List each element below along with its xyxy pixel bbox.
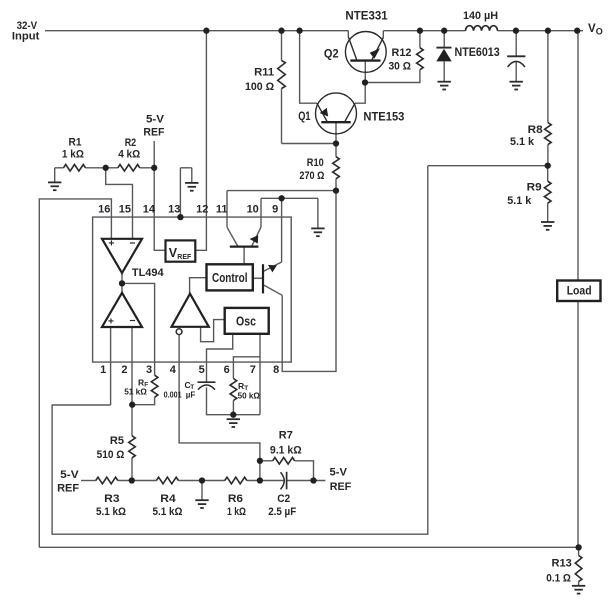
svg-text:+: + [108,316,114,328]
svg-text:R3: R3 [104,493,119,505]
svg-text:R8: R8 [528,124,543,136]
svg-text:6: 6 [224,364,230,376]
svg-text:V: V [588,23,596,35]
svg-text:NTE153: NTE153 [363,110,404,124]
svg-text:3: 3 [146,364,152,376]
svg-text:O: O [596,26,603,36]
svg-text:4: 4 [170,364,177,376]
svg-text:51 kΩ: 51 kΩ [124,387,147,397]
svg-text:Control: Control [212,271,248,285]
svg-text:100 Ω: 100 Ω [245,81,274,93]
svg-text:1: 1 [100,364,106,376]
svg-text:REF: REF [143,126,164,138]
svg-text:9: 9 [272,203,278,215]
svg-text:R7: R7 [279,430,293,442]
svg-text:+: + [108,237,114,249]
svg-text:5-V: 5-V [60,469,79,481]
svg-text:1 kΩ: 1 kΩ [227,506,246,518]
svg-text:13: 13 [168,203,180,215]
svg-text:Q2: Q2 [324,48,339,61]
svg-text:5-V: 5-V [330,467,348,479]
svg-text:5-V: 5-V [146,113,165,125]
svg-text:R6: R6 [228,493,243,505]
svg-text:9.1 kΩ: 9.1 kΩ [270,445,302,457]
svg-text:10: 10 [247,203,259,215]
svg-text:5.1 kΩ: 5.1 kΩ [96,506,126,518]
svg-text:Input: Input [12,31,40,43]
svg-text:REF: REF [57,482,79,494]
svg-text:5.1 k: 5.1 k [507,195,532,207]
svg-text:50 kΩ: 50 kΩ [238,391,260,401]
svg-text:−: − [129,237,135,249]
svg-text:TL494: TL494 [132,267,165,279]
svg-text:30 Ω: 30 Ω [389,60,412,72]
svg-text:REF: REF [330,481,352,493]
svg-text:15: 15 [119,203,131,215]
svg-text:5: 5 [199,364,205,376]
svg-text:µF: µF [186,390,196,400]
svg-text:12: 12 [196,203,208,215]
svg-text:R11: R11 [254,67,274,79]
svg-text:14: 14 [143,203,156,215]
svg-text:5.1 kΩ: 5.1 kΩ [153,506,183,518]
svg-text:Osc: Osc [236,313,256,328]
svg-text:REF: REF [177,252,191,261]
svg-text:NTE331: NTE331 [345,8,388,22]
svg-text:R5: R5 [110,435,124,447]
svg-text:R13: R13 [552,558,572,570]
svg-text:11: 11 [216,203,228,215]
svg-text:R10: R10 [307,157,324,169]
svg-text:−: − [129,315,135,327]
svg-text:NTE6013: NTE6013 [455,45,501,59]
svg-text:16: 16 [98,203,110,215]
svg-text:R12: R12 [392,47,412,59]
svg-text:C2: C2 [277,493,290,505]
svg-text:R4: R4 [160,493,176,505]
svg-text:Load: Load [567,284,592,298]
svg-text:1 kΩ: 1 kΩ [62,148,84,160]
svg-text:4 kΩ: 4 kΩ [118,148,140,160]
svg-text:0.001: 0.001 [164,390,182,400]
svg-text:0.1 Ω: 0.1 Ω [546,573,571,585]
svg-text:7: 7 [250,364,256,376]
svg-text:2: 2 [121,364,127,376]
svg-text:R9: R9 [527,182,542,194]
svg-text:510 Ω: 510 Ω [97,449,125,461]
svg-text:R2: R2 [125,137,137,149]
svg-text:2.5 µF: 2.5 µF [268,506,296,518]
svg-text:140 µH: 140 µH [463,10,498,22]
svg-text:R1: R1 [69,137,82,149]
svg-text:5.1 k: 5.1 k [510,136,535,148]
svg-text:Q1: Q1 [298,110,311,123]
svg-text:270 Ω: 270 Ω [299,170,324,182]
svg-text:8: 8 [273,364,279,376]
